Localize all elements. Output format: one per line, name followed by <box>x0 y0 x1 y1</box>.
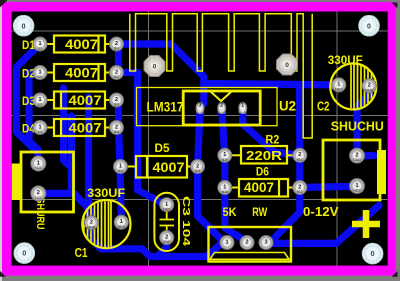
pad R2.1 <box>218 148 232 162</box>
wire D2 right to C3 top <box>117 73 167 205</box>
capacitor C1 <box>75 186 131 260</box>
svg-text:D5: D5 <box>155 141 170 155</box>
sheet corner mark top-right <box>392 3 398 9</box>
svg-text:tD5: tD5 <box>222 158 228 162</box>
svg-text:HD5: HD5 <box>218 110 227 115</box>
svg-text:tD5: tD5 <box>195 169 201 173</box>
svg-text:RW: RW <box>252 205 268 219</box>
svg-text:tJ1: tJ1 <box>38 75 43 79</box>
svg-text:2: 2 <box>245 239 248 245</box>
wire C3 bottom to gnd run <box>159 238 167 256</box>
svg-text:SHUCHU: SHUCHU <box>331 120 384 134</box>
svg-text:5K: 5K <box>223 205 237 219</box>
diode D2 <box>22 64 111 81</box>
svg-text:0: 0 <box>22 251 26 258</box>
pad D6.2 <box>293 181 307 195</box>
grid line horizontal y=199.5 <box>12 199 388 201</box>
diode D5 <box>127 141 193 178</box>
pad J1.2 <box>31 186 46 201</box>
svg-text:C2: C2 <box>317 99 330 114</box>
svg-text:4007: 4007 <box>69 93 102 108</box>
pad D1.1 <box>33 37 47 51</box>
pad C2.1 <box>332 78 346 92</box>
svg-text:HD2: HD2 <box>163 207 170 211</box>
wire input rail to C2 <box>204 84 339 85</box>
pad J2.1 <box>350 179 365 194</box>
capacitor C2 <box>317 53 376 114</box>
wire D5 right to pot pad A <box>198 167 227 243</box>
pad D3.2 <box>110 93 124 107</box>
wire C1 gnd to pot pad A <box>91 223 227 257</box>
svg-text:SHURU: SHURU <box>34 198 46 230</box>
svg-text:HJ1: HJ1 <box>35 166 41 170</box>
capacitor C3 <box>154 193 192 251</box>
svg-text:330UF: 330UF <box>87 186 125 200</box>
wire left mid vertical B <box>68 116 75 193</box>
svg-text:tR2: tR2 <box>297 158 303 162</box>
pad U2.1 <box>239 102 248 114</box>
grid line horizontal y=31 <box>12 30 388 32</box>
svg-text:tJ1: tJ1 <box>38 47 43 51</box>
pad D6.1 <box>218 181 232 195</box>
svg-text:HU2: HU2 <box>239 110 248 115</box>
svg-text:4007: 4007 <box>65 37 98 52</box>
wire D6 right to pot pad C <box>266 188 300 243</box>
pad J2.2 <box>350 148 365 163</box>
svg-text:tD4: tD4 <box>118 169 124 173</box>
wire output pad2 stub <box>357 152 374 159</box>
wire U2 pin1 to R2 right <box>243 108 300 155</box>
U2 pin1 chevron <box>210 91 232 101</box>
wire pot pad C to output tab <box>268 206 379 244</box>
svg-text:0-12V: 0-12V <box>303 205 339 219</box>
sheet corner mark bottom-left <box>0 271 6 277</box>
sheet corner mark top-left <box>0 0 8 8</box>
svg-text:330UF: 330UF <box>328 53 363 67</box>
pad C3.2 <box>160 231 174 245</box>
connector J1 SHURU <box>12 152 74 230</box>
grid line horizontal y=115.5 <box>12 115 388 117</box>
svg-text:tD1: tD1 <box>114 47 120 51</box>
pad C3.1 <box>160 198 174 212</box>
svg-text:HDS: HDS <box>335 88 343 92</box>
svg-text:4007: 4007 <box>153 160 185 175</box>
LM317 outline U1 <box>137 88 278 126</box>
svg-text:HJ1: HJ1 <box>35 196 41 200</box>
svg-text:1: 1 <box>225 239 228 245</box>
pad RW.2 <box>240 236 254 250</box>
wire D1-D2 right pads <box>115 44 122 73</box>
via octagon right <box>277 54 298 75</box>
svg-text:4007: 4007 <box>69 120 102 135</box>
svg-text:3: 3 <box>264 239 267 245</box>
diode D6 <box>231 164 294 196</box>
svg-text:C1: C1 <box>75 245 88 260</box>
pad D1.2 <box>110 37 124 51</box>
svg-text:0: 0 <box>367 23 371 30</box>
svg-text:0: 0 <box>285 62 289 69</box>
wire U2 pin3 to D5 right <box>198 108 200 167</box>
pad RW.1 <box>220 236 234 250</box>
svg-text:D6: D6 <box>256 164 269 178</box>
svg-text:tD2: tD2 <box>114 75 120 79</box>
diode D1 <box>22 36 111 53</box>
pad U2.2 <box>218 102 227 114</box>
via octagon left <box>144 56 165 77</box>
grid line vertical x=337 <box>336 12 338 266</box>
plus polarity mark <box>352 210 380 238</box>
wire D4 right to D5 left to C1 plus <box>119 128 122 223</box>
heatsink silkscreen (LM317 tab fins) <box>130 14 312 138</box>
svg-text:3: 3 <box>198 103 201 109</box>
resistor R2 <box>231 132 294 163</box>
pad D4.2 <box>110 121 124 135</box>
wire rail down to R2 right <box>296 85 303 156</box>
svg-text:4007: 4007 <box>65 65 98 80</box>
svg-text:2: 2 <box>220 103 223 109</box>
svg-text:tD6: tD6 <box>222 190 228 194</box>
sheet corner mark bottom-right <box>392 271 398 277</box>
wire U2 pin2 to R2 left to pot wiper <box>222 108 247 243</box>
svg-text:LM317: LM317 <box>147 99 184 114</box>
svg-text:tD4: tD4 <box>114 130 120 134</box>
svg-text:0: 0 <box>22 23 26 30</box>
mounting hole top-right <box>359 15 380 36</box>
pad D2.1 <box>33 66 47 80</box>
wire J1 pad2 to C1 gnd <box>38 193 91 222</box>
svg-text:GND: GND <box>87 225 95 229</box>
svg-text:U2: U2 <box>279 98 296 113</box>
grid line vertical x=148.5 <box>148 12 150 266</box>
pad D5.2 <box>191 160 205 174</box>
svg-text:0: 0 <box>153 63 157 70</box>
pad J1.1 <box>31 156 46 171</box>
pad D4.1 <box>33 121 47 135</box>
wire D2 pad to J1 pad1 <box>29 73 40 151</box>
svg-text:HD1: HD1 <box>196 110 205 115</box>
wire left mid vertical A <box>64 88 72 193</box>
diode D4 <box>22 119 111 136</box>
wire D1 anode to J1 pad1 <box>17 44 41 164</box>
diode D3 <box>22 92 111 109</box>
wire D6 right to output pad1 <box>300 186 357 187</box>
svg-text:R2: R2 <box>265 132 279 146</box>
mounting hole bottom-left <box>14 243 35 264</box>
wire C2 gnd down to output pad2 <box>357 86 369 156</box>
svg-text:HDS: HDS <box>353 189 361 193</box>
wire gnd vertical to C1 <box>89 97 92 223</box>
pad D3.1 <box>33 93 47 107</box>
regulator U2 body <box>183 91 260 125</box>
svg-text:220R: 220R <box>246 148 283 163</box>
pad R2.2 <box>293 148 307 162</box>
svg-text:GND: GND <box>365 88 373 92</box>
svg-text:HD5: HD5 <box>118 225 125 229</box>
mounting hole bottom-right <box>362 243 383 264</box>
wire D3-D4 right pads <box>115 100 122 128</box>
svg-text:0: 0 <box>371 251 375 258</box>
svg-text:1: 1 <box>241 103 244 109</box>
pad RW.3 <box>259 236 273 250</box>
wire D1 right to U2 pin3 <box>117 44 204 108</box>
pad U2.3 <box>196 102 205 114</box>
pad C2.2 <box>362 79 376 93</box>
pad D2.2 <box>110 66 124 80</box>
svg-text:tD3: tD3 <box>114 103 120 107</box>
svg-text:tJ2: tJ2 <box>38 130 43 134</box>
pad C1.1 <box>84 216 98 230</box>
svg-text:C3 104: C3 104 <box>180 196 192 246</box>
mounting hole top-left <box>13 15 34 36</box>
connector J2 SHUCHU <box>323 120 386 201</box>
pad C1.2 <box>114 215 128 229</box>
svg-text:4007: 4007 <box>244 180 274 195</box>
svg-text:GND: GND <box>353 158 361 162</box>
potentiometer RW 5K <box>209 205 292 262</box>
pad D5.1 <box>114 160 128 174</box>
wire R2 right to D6 right <box>296 155 303 187</box>
svg-text:tJ2: tJ2 <box>38 103 43 107</box>
svg-text:GND: GND <box>163 240 171 244</box>
svg-text:tR2: tR2 <box>297 190 303 194</box>
